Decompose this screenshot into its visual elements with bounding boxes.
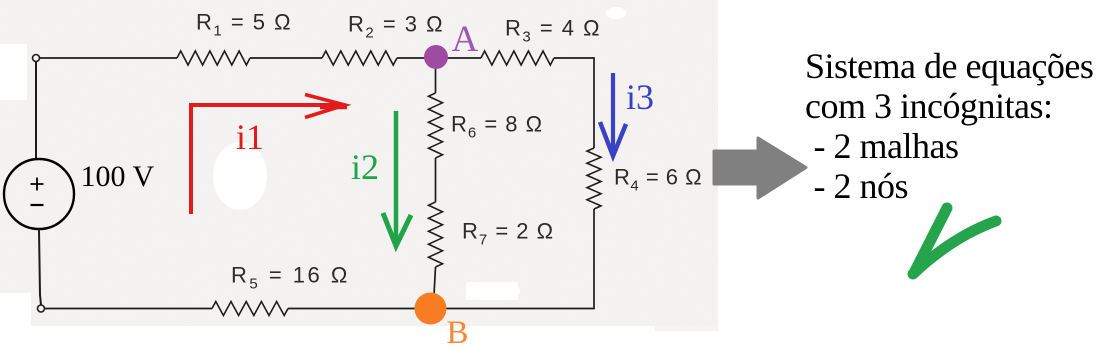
resistor R4: [587, 148, 702, 209]
wire between R6 and R7: [435, 158, 437, 202]
node A: [424, 19, 479, 69]
resistor R1: [177, 10, 292, 66]
svg-text:i3: i3: [626, 77, 654, 117]
wire between node A and R3: [446, 57, 481, 59]
voltage source V1 100 V: [4, 159, 154, 229]
wire between R1 and R2: [250, 57, 322, 59]
svg-text:B: B: [447, 315, 469, 351]
node B: [415, 293, 469, 352]
green checkmark: [913, 208, 996, 274]
wire between R2 and node A: [397, 57, 426, 59]
wire: middle branch from node A down to R6: [435, 69, 437, 93]
svg-text:A: A: [452, 19, 479, 60]
current arrow i2: [351, 111, 411, 246]
wire: top rail from left terminal to R1: [39, 57, 177, 59]
resistor R2: [322, 12, 444, 66]
resistor R3: [481, 16, 601, 66]
wire from R7 down to node B: [434, 267, 436, 295]
resistor R5: [212, 263, 350, 316]
svg-text:i2: i2: [351, 147, 379, 187]
current arrow i3: [600, 73, 654, 156]
big gray arrow: [714, 138, 806, 198]
wire from top-left terminal down to source: [35, 62, 37, 160]
annotation text block: [805, 46, 1093, 206]
terminal node bottom-left: [38, 305, 45, 312]
wire from source down to bottom-left terminal: [39, 229, 41, 305]
svg-text:i1: i1: [236, 117, 264, 157]
terminal node top-left: [33, 55, 40, 62]
resistor R7: [429, 202, 555, 267]
wire from R5 to bottom-left terminal: [45, 308, 212, 310]
current arrow i1: [191, 95, 347, 215]
svg-text:100 V: 100 V: [81, 160, 155, 193]
wire from R3 to top-right corner down to R4: [554, 58, 594, 148]
resistor R6: [429, 93, 544, 158]
wire from R4 down to bottom-right corner and left to node B: [446, 209, 594, 309]
scan background: [0, 0, 718, 331]
wire from node B to R5: [288, 308, 416, 310]
